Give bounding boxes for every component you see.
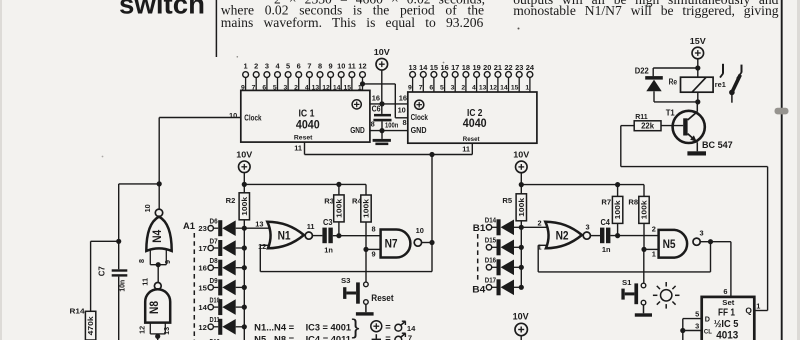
wire 10V rail to R3 R4 xyxy=(244,183,366,185)
wire N4 inputs to N8 output xyxy=(157,265,159,283)
wire C3 to N7 pin8 xyxy=(333,235,381,237)
svg-text:3: 3 xyxy=(265,62,269,71)
svg-text:4040: 4040 xyxy=(463,116,487,130)
node bus junction D10 xyxy=(242,305,247,310)
svg-text:15V: 15V xyxy=(690,36,706,46)
wire C4 to N5 pin2 xyxy=(610,235,658,237)
svg-text:D16: D16 xyxy=(485,258,496,265)
svg-text:N4: N4 xyxy=(152,229,164,243)
dashed terminal line B xyxy=(477,234,479,282)
svg-text:=: = xyxy=(385,321,391,332)
svg-text:Reset: Reset xyxy=(294,135,313,142)
svg-text:2: 2 xyxy=(254,62,258,71)
svg-text:5: 5 xyxy=(440,85,444,92)
svg-text:10V: 10V xyxy=(513,150,529,160)
svg-text:2: 2 xyxy=(461,85,465,92)
wire 10V to R5 xyxy=(520,173,522,194)
svg-text:10: 10 xyxy=(337,62,345,71)
resistor R8 100k xyxy=(643,185,645,197)
svg-text:R3: R3 xyxy=(324,196,334,205)
svg-text:16: 16 xyxy=(372,93,380,102)
node 10V rail left xyxy=(242,182,247,187)
svg-text:10: 10 xyxy=(398,106,406,115)
wire R14 branch xyxy=(91,240,119,242)
svg-text:re1: re1 xyxy=(715,80,726,89)
svg-text:CL: CL xyxy=(704,328,712,335)
svg-text:15: 15 xyxy=(344,84,352,91)
svg-text:10: 10 xyxy=(229,111,237,120)
wire 10V to pin16 rail xyxy=(381,70,383,114)
svg-text:2: 2 xyxy=(537,218,541,227)
wire 10V to R2 xyxy=(243,173,245,193)
svg-text:A1: A1 xyxy=(183,221,196,232)
svg-text:GND: GND xyxy=(350,126,365,135)
svg-text:6: 6 xyxy=(297,62,301,71)
wire FF1 D/CL tie down off page xyxy=(682,319,684,340)
svg-text:GND: GND xyxy=(411,126,427,135)
svg-text:N1...N4 =: N1...N4 = xyxy=(254,323,294,333)
svg-text:8: 8 xyxy=(318,62,322,71)
svg-text:3: 3 xyxy=(695,321,699,330)
svg-text:IC3 = 4001: IC3 = 4001 xyxy=(306,323,352,334)
svg-text:14: 14 xyxy=(198,303,207,312)
svg-text:14: 14 xyxy=(500,85,508,92)
svg-text:R5: R5 xyxy=(502,196,512,205)
svg-text:R4: R4 xyxy=(352,196,362,205)
svg-text:1: 1 xyxy=(756,301,760,310)
resistor R3 100k xyxy=(338,184,340,195)
wire 10V bottom stub xyxy=(520,336,522,340)
wire C6 to GND rail xyxy=(381,121,383,138)
svg-text:4013: 4013 xyxy=(716,329,738,340)
svg-text:monostable N1/N7 will be trigg: monostable N1/N7 will be triggered, givi… xyxy=(513,3,779,18)
svg-text:=: = xyxy=(385,333,391,340)
svg-text:4040: 4040 xyxy=(296,117,320,131)
wire S3 to ground xyxy=(365,304,367,312)
svg-text:9: 9 xyxy=(241,84,245,91)
svg-text:}: } xyxy=(352,316,360,339)
node C4/R7 junction xyxy=(615,233,620,238)
dashed terminal line A xyxy=(193,233,195,340)
node C7 / R14 junction xyxy=(116,239,121,244)
flip-flop FF1 half 4013 body xyxy=(702,297,755,340)
wire IC2 clock entry xyxy=(395,117,408,119)
N2 output bubble xyxy=(583,232,590,239)
wire N2 pin2 input xyxy=(521,226,548,228)
svg-text:21: 21 xyxy=(494,63,502,72)
wire N7 output xyxy=(422,242,432,244)
svg-text:10V: 10V xyxy=(374,47,390,57)
svg-text:2: 2 xyxy=(294,84,298,91)
svg-text:12: 12 xyxy=(198,323,206,332)
node junction N4 output / C7 branch xyxy=(119,183,160,185)
svg-text:2: 2 xyxy=(652,225,656,234)
ground bar S1 xyxy=(635,313,652,316)
svg-text:N7: N7 xyxy=(385,239,398,251)
wire N1 pin13 input xyxy=(244,227,270,229)
node bus junction D6 xyxy=(242,226,247,231)
legend supply pin symbol xyxy=(371,321,382,332)
NAND gate N8 output bubble xyxy=(154,283,161,290)
svg-text:9: 9 xyxy=(163,260,172,264)
relay contact re1 xyxy=(722,64,724,74)
resistor R7 100k xyxy=(617,185,619,197)
svg-text:12: 12 xyxy=(322,84,330,91)
NAND gate N7 xyxy=(381,230,411,258)
IC 4040 counter U IC2 body xyxy=(408,92,537,143)
wire N2 pin1 input xyxy=(538,244,548,246)
node 15V / D22 top junction xyxy=(695,65,700,70)
svg-text:D15: D15 xyxy=(485,238,496,245)
svg-text:9: 9 xyxy=(372,250,376,259)
node bus junction D17 xyxy=(519,285,524,290)
IC1 pin 16 supply circle xyxy=(352,100,361,109)
svg-text:3: 3 xyxy=(585,222,589,231)
wire IC1 clock from N4 output xyxy=(159,117,241,119)
svg-text:D17: D17 xyxy=(485,278,496,285)
svg-text:C6: C6 xyxy=(372,105,382,114)
svg-text:D8: D8 xyxy=(210,258,218,265)
svg-text:13: 13 xyxy=(255,219,263,228)
svg-text:N1: N1 xyxy=(278,231,292,243)
svg-text:D6: D6 xyxy=(210,219,218,226)
node relay coil bottom junction xyxy=(695,99,700,104)
relay coil Re xyxy=(681,77,714,92)
svg-text:Clock: Clock xyxy=(411,113,429,122)
svg-text:½IC 5: ½IC 5 xyxy=(714,319,739,330)
svg-text:12: 12 xyxy=(358,62,366,71)
svg-text:R11: R11 xyxy=(635,112,648,121)
svg-text:3: 3 xyxy=(699,228,703,237)
node N4 inputs tie xyxy=(156,262,161,267)
svg-text:13: 13 xyxy=(162,327,171,335)
N5 output bubble xyxy=(693,238,700,245)
NOR gate N4 output bubble xyxy=(155,209,162,216)
svg-text:N2: N2 xyxy=(556,231,569,243)
paper specks xyxy=(518,28,520,30)
wire pin16 rail IC1-IC2 xyxy=(370,103,408,105)
svg-text:4: 4 xyxy=(472,85,476,92)
svg-text:7: 7 xyxy=(307,62,311,71)
svg-text:16: 16 xyxy=(198,264,206,273)
NAND gate N5 xyxy=(659,230,688,258)
svg-text:6: 6 xyxy=(723,287,727,296)
page fold rule right xyxy=(781,0,783,340)
wire reset bus xyxy=(305,154,473,156)
wire IC1 pin1 to IC2 clock horizontal xyxy=(363,83,396,85)
svg-text:Reset: Reset xyxy=(371,292,393,303)
NOR gate N1 xyxy=(267,222,304,249)
svg-text:mains waveform. This is equal: mains waveform. This is equal to 93.206 xyxy=(221,15,484,30)
svg-text:S1: S1 xyxy=(622,278,632,287)
NOR gate N4 xyxy=(146,217,171,251)
wire N7 pin9 input xyxy=(366,248,381,250)
svg-text:15: 15 xyxy=(198,283,207,292)
svg-text:R14: R14 xyxy=(70,307,86,316)
svg-text:Q: Q xyxy=(745,306,752,316)
svg-text:N5: N5 xyxy=(663,239,677,251)
svg-text:18: 18 xyxy=(462,63,470,72)
node bus junction D7 xyxy=(242,245,247,250)
svg-text:Clock: Clock xyxy=(244,113,262,122)
svg-text:11: 11 xyxy=(141,278,150,286)
svg-text:D7: D7 xyxy=(210,238,218,245)
node reset junction to N7 output xyxy=(429,152,434,157)
svg-text:D: D xyxy=(705,314,710,323)
svg-text:S3: S3 xyxy=(341,276,351,285)
svg-text:16: 16 xyxy=(399,93,407,102)
node R8 / N5 pin1 junction xyxy=(641,247,646,252)
ground bar T1 emitter xyxy=(687,151,706,155)
svg-text:11: 11 xyxy=(307,222,315,231)
svg-text:10V: 10V xyxy=(513,312,529,322)
wire loop riser to N5 output xyxy=(710,242,712,272)
svg-text:N5...N8 =: N5...N8 = xyxy=(254,335,294,340)
node N8 inputs tie xyxy=(155,334,160,339)
svg-text:5: 5 xyxy=(273,84,277,91)
svg-text:N8: N8 xyxy=(149,300,161,314)
svg-text:1: 1 xyxy=(652,250,656,259)
svg-text:Re: Re xyxy=(669,77,678,86)
svg-text:17: 17 xyxy=(198,244,206,253)
svg-text:11: 11 xyxy=(348,62,356,71)
svg-text:12: 12 xyxy=(137,326,146,334)
svg-text:14: 14 xyxy=(333,84,341,91)
svg-text:8: 8 xyxy=(137,259,146,263)
node N7 output junction xyxy=(429,240,434,245)
wire C7 bottom off page xyxy=(118,277,120,340)
svg-text:8: 8 xyxy=(372,225,376,234)
resistor R5 100k xyxy=(516,194,526,221)
column divider rule xyxy=(215,0,217,57)
node N5 output junction xyxy=(708,239,713,244)
wire FF1 CL pin3 stub xyxy=(683,330,702,332)
wire N4 output riser xyxy=(158,118,160,210)
wire N1 pin12 input xyxy=(260,244,270,246)
wire N5 output to FF1 Set xyxy=(711,241,731,243)
svg-text:24: 24 xyxy=(526,63,535,72)
svg-text:17: 17 xyxy=(451,63,459,72)
svg-text:7: 7 xyxy=(408,333,412,340)
wire FF1 D pin5 stub xyxy=(683,318,702,320)
wire loop riser to N7 output xyxy=(431,243,433,272)
svg-text:3: 3 xyxy=(284,84,288,91)
N1 output bubble xyxy=(305,232,312,239)
svg-text:9: 9 xyxy=(408,85,412,92)
node FF1 CL junction xyxy=(680,328,685,333)
svg-text:100k: 100k xyxy=(240,197,249,216)
svg-text:7: 7 xyxy=(252,84,256,91)
wire S1 to ground xyxy=(643,305,645,313)
svg-text:C7: C7 xyxy=(98,266,107,276)
svg-text:Set: Set xyxy=(722,298,735,307)
resistor R4 100k xyxy=(365,184,367,195)
wire N1 output to C3 xyxy=(312,235,322,237)
wire FF1 Q riser xyxy=(767,167,769,311)
svg-text:Reset: Reset xyxy=(463,136,481,143)
node bus junction D9 xyxy=(242,285,247,290)
svg-text:C4: C4 xyxy=(600,218,610,227)
svg-text:470k: 470k xyxy=(88,316,95,335)
svg-text:14: 14 xyxy=(419,63,428,72)
svg-text:100k: 100k xyxy=(613,200,622,219)
svg-text:13: 13 xyxy=(408,63,416,72)
svg-text:19: 19 xyxy=(472,63,480,72)
svg-text:22: 22 xyxy=(504,63,512,72)
wire N8 input stubs xyxy=(149,323,151,334)
svg-text:R7: R7 xyxy=(601,198,611,207)
svg-text:R2: R2 xyxy=(226,196,236,205)
wire IC2 clock riser xyxy=(394,84,396,118)
wire N2 output to C4 xyxy=(590,235,600,237)
node bus junction D14 xyxy=(519,225,524,230)
svg-text:8: 8 xyxy=(402,118,406,127)
node bus junction D15 xyxy=(519,245,524,250)
wire reset drop to N7 output xyxy=(431,155,433,243)
svg-text:11: 11 xyxy=(462,145,470,154)
node bus junction D16 xyxy=(519,265,524,270)
wire N4 input stubs xyxy=(149,248,151,264)
wire R8 node down to S1 xyxy=(643,249,645,283)
wire FF1 Q to R11 horizontal xyxy=(621,166,768,168)
node 10V rail right xyxy=(519,182,524,187)
svg-text:6: 6 xyxy=(429,85,433,92)
svg-text:13: 13 xyxy=(312,84,320,91)
svg-text:20: 20 xyxy=(483,63,491,72)
wire T1 collector to relay xyxy=(696,102,698,112)
svg-text:100n: 100n xyxy=(385,121,399,130)
svg-text:B1: B1 xyxy=(473,223,486,234)
svg-text:12: 12 xyxy=(258,242,266,251)
svg-text:22k: 22k xyxy=(641,122,655,131)
wire R11 to T1 base xyxy=(661,125,683,127)
svg-text:B4: B4 xyxy=(472,284,486,295)
svg-text:5: 5 xyxy=(695,309,699,318)
svg-text:10V: 10V xyxy=(236,150,252,160)
IC2 pin 16 supply circle xyxy=(415,100,424,109)
svg-text:T1: T1 xyxy=(666,107,675,117)
T1 emitter with arrow xyxy=(688,134,698,143)
paper defect blob on fold rule xyxy=(775,108,789,115)
svg-text:switch: switch xyxy=(119,0,205,19)
wire D22 top branch xyxy=(653,67,698,69)
svg-text:10: 10 xyxy=(416,226,424,235)
svg-text:6: 6 xyxy=(262,84,266,91)
svg-text:14: 14 xyxy=(407,324,416,333)
svg-text:11: 11 xyxy=(294,144,302,153)
lamp-on sun symbol xyxy=(661,290,672,301)
svg-text:FF 1: FF 1 xyxy=(718,307,735,318)
svg-text:15: 15 xyxy=(511,85,519,92)
ground symbol below C6 xyxy=(373,139,391,142)
wire monostable 1 feedback loop xyxy=(260,271,432,273)
wire N5 pin1 input xyxy=(644,248,659,250)
wire C7 branch down xyxy=(118,184,120,269)
wire R4 node down to S3 xyxy=(365,249,367,282)
svg-text:9: 9 xyxy=(329,62,333,71)
wire N5 output xyxy=(700,241,710,243)
node C3/R3 junction xyxy=(336,233,341,238)
wire diode bus A xyxy=(243,220,245,340)
svg-text:1: 1 xyxy=(244,62,248,71)
NOR gate N2 xyxy=(545,222,582,249)
svg-text:100k: 100k xyxy=(362,199,371,218)
wire IC1 reset pin 11 stub xyxy=(304,142,306,154)
node R4 / N7 pin9 junction xyxy=(363,247,368,252)
wire R11 left leg xyxy=(621,125,634,127)
svg-text:23: 23 xyxy=(515,63,523,72)
wire D22 bottom branch xyxy=(653,91,655,102)
node bus junction D8 xyxy=(242,265,247,270)
svg-text:D22: D22 xyxy=(635,66,650,75)
wire diode bus B xyxy=(520,221,522,288)
node bus junction D11 xyxy=(242,324,247,329)
svg-text:13: 13 xyxy=(479,85,487,92)
svg-text:1: 1 xyxy=(525,85,529,92)
svg-text:1n: 1n xyxy=(324,245,333,254)
NAND gate N8 xyxy=(145,289,170,322)
wire 10V rail to R7 R8 xyxy=(521,184,644,186)
svg-text:100k: 100k xyxy=(640,200,649,219)
svg-text:5: 5 xyxy=(286,62,290,71)
svg-text:1: 1 xyxy=(537,243,541,252)
wire T1 emitter to ground xyxy=(696,142,698,151)
node IC1 pin 1 junction to IC2 clock xyxy=(360,81,365,86)
legend ground symbol clipped xyxy=(375,334,377,339)
svg-text:D14: D14 xyxy=(485,218,496,225)
svg-text:IC4 = 4011: IC4 = 4011 xyxy=(306,335,352,340)
legend pin 7 symbol clipped xyxy=(395,336,402,340)
wire IC2 reset pin 11 stub xyxy=(471,143,473,154)
svg-text:4: 4 xyxy=(305,84,309,91)
svg-text:15: 15 xyxy=(430,63,438,72)
N7 output bubble xyxy=(414,239,421,246)
svg-text:16: 16 xyxy=(440,63,448,72)
svg-text:7: 7 xyxy=(419,85,423,92)
svg-text:1n: 1n xyxy=(602,245,611,254)
ground bar S3 xyxy=(356,312,374,315)
svg-text:100k: 100k xyxy=(335,199,344,218)
svg-text:3: 3 xyxy=(451,85,455,92)
wire monostable 2 feedback loop xyxy=(538,271,710,273)
resistor R2 100k xyxy=(239,193,249,220)
svg-text:100k: 100k xyxy=(517,198,526,217)
wire GND pins rail xyxy=(370,130,408,132)
svg-text:23: 23 xyxy=(198,224,206,233)
wire 15V down xyxy=(697,59,699,102)
svg-text:BC 547: BC 547 xyxy=(702,140,733,151)
legend pin 14 symbol xyxy=(395,324,402,331)
IC 4040 counter U IC1 body xyxy=(241,90,370,142)
svg-text:C3: C3 xyxy=(323,218,333,227)
svg-text:R8: R8 xyxy=(628,198,638,207)
svg-text:10: 10 xyxy=(143,204,152,212)
svg-text:D9: D9 xyxy=(210,278,218,285)
svg-text:12: 12 xyxy=(490,85,498,92)
